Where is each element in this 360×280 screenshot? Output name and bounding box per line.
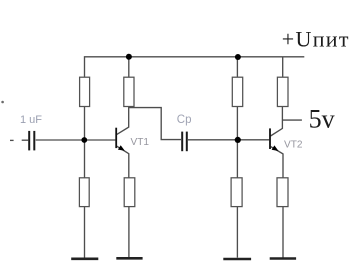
svg-text:5v: 5v [309,105,335,134]
svg-text:VT1: VT1 [131,137,150,148]
svg-text:VT2: VT2 [284,139,303,150]
svg-text:+Uпит: +Uпит [282,27,350,52]
svg-text:Cp: Cp [177,114,192,126]
svg-text:1 uF: 1 uF [20,114,42,126]
